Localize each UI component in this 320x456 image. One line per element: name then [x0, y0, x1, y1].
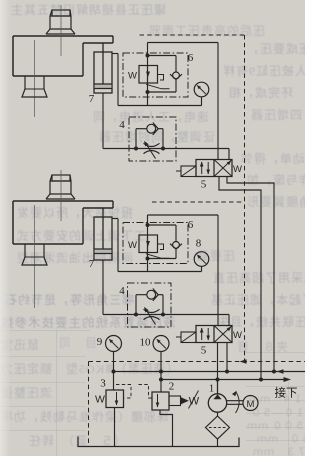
press die centreline (unit 1) — [34, 40, 36, 117]
valve 5b straight-flow arrows — [200, 328, 210, 341]
supply pipe to valve 5a (P-line) — [148, 43, 219, 160]
svg-text:9: 9 — [97, 336, 103, 348]
pressure line P (to sheet 2) with flow arrow — [161, 377, 291, 382]
junction nodes on pressure line — [159, 378, 263, 382]
press die centreline (unit 2) — [34, 205, 36, 308]
pilot line of valve 2 (dashed) — [139, 385, 153, 399]
unloading valve 2 body — [152, 392, 169, 410]
label 2 (unloading valve) — [169, 381, 175, 393]
pipe vertical through group 6a — [147, 43, 149, 106]
label 5 (directional valve 1) — [201, 179, 207, 191]
adjustable spring W of valve 2 — [189, 391, 200, 409]
junction nodes in valve 4a — [134, 147, 165, 151]
directional valve 5b body — [196, 326, 232, 343]
pressure gauge 10 — [153, 336, 169, 372]
cylinder rod (unit 1) — [102, 43, 104, 84]
hydraulic cylinder 7b — [94, 217, 112, 260]
valve group 6a enclosure (dash-dot) — [123, 53, 188, 97]
pipe cylinder bottom port (unit 2) — [103, 260, 129, 315]
svg-text:7: 7 — [89, 258, 95, 270]
svg-text:M: M — [247, 399, 255, 410]
clamp bolt on ram (unit 1) — [46, 10, 75, 34]
relief valve spring W (group 6a) — [128, 71, 137, 82]
svg-text:6: 6 — [188, 219, 194, 231]
pressure gauge at group 6a — [194, 82, 209, 105]
pipe valve 5a port B to lower circuit — [227, 177, 274, 372]
press die / punch (unit 1) — [22, 76, 47, 97]
supply pipe to valve 5b (P-line) — [148, 215, 219, 326]
pipe valve 5b port B to pump junction — [226, 343, 228, 372]
suction filter — [206, 416, 230, 439]
label 8 (pressure gauge) — [196, 238, 202, 250]
machine boundary of press 2 (dashed) — [152, 201, 245, 203]
junction node bottom of group 6b — [146, 257, 150, 261]
pipe gauge 10 line into valve 2 — [160, 372, 162, 393]
check valve in group 6b — [148, 225, 183, 259]
return spring W of valve 5b — [233, 330, 242, 341]
pressure gauge 9 — [106, 336, 122, 372]
rotation direction arc — [232, 391, 239, 413]
solenoid of valve 2 — [169, 396, 189, 406]
pipe valve 5a port T to lower circuit — [219, 177, 261, 380]
pipe vertical through group 6b — [147, 215, 149, 272]
svg-text:W: W — [128, 240, 137, 251]
label 3 (relief valve) — [100, 378, 106, 390]
svg-text:3: 3 — [100, 378, 106, 390]
caption 接下 (continued below) — [275, 387, 298, 400]
one-way throttle valve 4b enclosure (dash-dot) — [128, 283, 172, 327]
drain pilot line to tank (dashed) with flow arrow — [89, 359, 306, 444]
pilot relief valve in group 6b — [139, 235, 170, 258]
label 7 (cylinder 2) — [89, 258, 95, 270]
solenoid of valve 5b — [176, 332, 196, 343]
svg-text:5: 5 — [201, 345, 207, 357]
label 6 (valve group 2) — [188, 219, 194, 231]
press die / punch (unit 2) — [22, 244, 47, 265]
pipe cylinder bottom port (unit 1) — [103, 93, 129, 149]
relief valve spring W (group 6b) — [128, 240, 137, 251]
svg-text:2: 2 — [169, 381, 175, 393]
valve 3 drain to tank — [114, 408, 116, 447]
valve 5b crossed-flow arrows — [214, 326, 232, 343]
return line B (to sheet 2) with flow arrow — [114, 369, 306, 374]
relief valve 3 body — [106, 390, 124, 408]
clamp bolt on ram (unit 2) — [46, 175, 75, 199]
valve 5a straight-flow arrows — [200, 162, 210, 175]
check valve in group 6a — [148, 56, 183, 93]
junction nodes in valve 4b — [134, 313, 165, 317]
pipe into valve 3 — [113, 372, 115, 391]
pilot line of valve 3 (dashed) — [116, 385, 131, 399]
pipe valve 4a to valve 5a (A-line) — [176, 149, 229, 160]
valve 2 drain to tank — [160, 410, 173, 447]
label 5 (directional valve 2) — [201, 345, 207, 357]
svg-text:W: W — [95, 394, 105, 406]
pipe valve 5b port T / pump pressure riser — [217, 343, 219, 395]
label 10 (pressure gauge) — [140, 337, 152, 349]
svg-text:W: W — [233, 164, 242, 175]
valve 5a crossed-flow arrows — [214, 160, 232, 177]
junction node bottom of group 6a — [146, 90, 150, 94]
oil tank — [78, 437, 239, 447]
valve group 6b enclosure (dash-dot) — [123, 223, 188, 264]
throttle main line through valve 4a — [129, 148, 176, 150]
pump suction pipe — [217, 412, 219, 416]
bolt centreline (unit 2) — [60, 170, 62, 221]
svg-text:6: 6 — [188, 52, 194, 64]
pipe valve 4b to valve 5b (A-line) — [171, 315, 229, 326]
pump-motor shaft coupling — [227, 401, 243, 405]
svg-text:8: 8 — [196, 238, 202, 250]
junction nodes on return line — [112, 370, 277, 374]
pilot relief valve in group 6a — [139, 66, 170, 89]
svg-text:7: 7 — [89, 93, 95, 105]
label 6 (valve group 1) — [188, 52, 194, 64]
pipe cylinder rod-side port (unit 2) — [112, 219, 202, 272]
relief valve 3 spring W — [95, 394, 105, 406]
throttle main line through valve 4b — [128, 314, 172, 316]
bolt centreline (unit 1) — [60, 5, 62, 56]
filter to tank pipe — [217, 439, 219, 447]
solenoid of valve 5a — [176, 166, 196, 177]
label 9 (pressure gauge) — [97, 336, 103, 348]
svg-text:10: 10 — [140, 337, 152, 349]
svg-text:5: 5 — [201, 179, 207, 191]
junction node top of group 6b — [146, 223, 150, 227]
label 4 (throttle valve 1) — [119, 119, 125, 131]
svg-text:W: W — [233, 330, 242, 341]
label 1 (pump) — [209, 383, 215, 395]
electric motor M — [243, 396, 258, 411]
hydraulic cylinder 7a — [94, 52, 112, 93]
svg-text:4: 4 — [119, 119, 125, 131]
throttle restrictor in valve 4b — [144, 307, 160, 325]
bypass check valve in valve 4b — [136, 289, 163, 315]
pipe cylinder rod-side port (unit 1) — [112, 54, 202, 106]
svg-text:W: W — [128, 71, 137, 82]
junction node top of group 6a — [146, 54, 150, 58]
label 7 (cylinder 1) — [89, 93, 95, 105]
svg-text:1: 1 — [209, 383, 215, 395]
svg-text:接下: 接下 — [275, 387, 298, 400]
cylinder rod (unit 2) — [102, 208, 104, 249]
directional valve 5a body — [196, 160, 232, 177]
hydraulic pump 1 — [208, 380, 226, 413]
pressure gauge 8 at group 6b — [194, 252, 209, 272]
svg-text:4: 4 — [119, 285, 125, 297]
throttle restrictor in valve 4a — [144, 141, 160, 159]
label 4 (throttle valve 2) — [119, 285, 125, 297]
bypass check valve in valve 4a — [136, 123, 163, 149]
machine boundary of press 1 (dashed) — [140, 34, 245, 36]
press ram body (unit 1) — [13, 36, 113, 76]
machine boundary right side (dashed vertical) — [244, 35, 246, 362]
one-way throttle valve 4a enclosure (dash-dot) — [129, 117, 176, 161]
press ram body (unit 2) — [13, 201, 113, 244]
return spring W of valve 5a — [233, 164, 242, 175]
